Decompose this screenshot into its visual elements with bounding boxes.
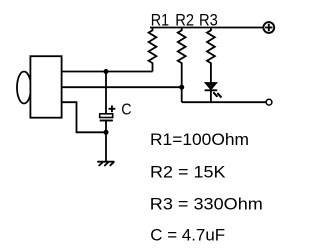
node A junction dot (cap top / wire1) [104, 69, 109, 74]
svg-text:C: C [121, 101, 131, 118]
wire mic pin1 to R1 bottom [62, 71, 153, 73]
wire mic pin2 to R2 bottom node [62, 86, 182, 88]
capacitor C plus marking [109, 105, 116, 112]
terminal plus supply [263, 22, 274, 33]
resistor R3 [207, 28, 215, 83]
wire R2 bottom to output rail [181, 87, 183, 102]
resistor R2 [178, 28, 186, 88]
svg-text:R3 = 330Ohm: R3 = 330Ohm [150, 195, 263, 214]
wire LED cathode lead [210, 90, 212, 102]
wire top supply rail [150, 27, 263, 29]
microphone MIC capsule ellipse [17, 72, 31, 104]
wire cap top lead [105, 72, 107, 114]
svg-text:R1=100Ohm: R1=100Ohm [150, 130, 249, 149]
svg-text:R1: R1 [151, 11, 169, 30]
terminal output [266, 99, 272, 105]
resistor R1 [149, 28, 157, 72]
capacitor C1 top plate [100, 114, 113, 118]
microphone MIC body [30, 56, 61, 117]
node B junction dot (ground node) [104, 130, 109, 135]
node C junction dot (R2 / wire2) [179, 85, 184, 90]
wire mic pin3 to ground node [62, 102, 106, 132]
svg-text:R3: R3 [199, 11, 218, 30]
LED D1 cathode bar [205, 89, 218, 91]
LED D1 anode triangle [205, 83, 217, 90]
LED D1 emission arrows [214, 93, 221, 97]
svg-text:R2: R2 [175, 11, 194, 30]
ground symbol [98, 162, 114, 166]
wire bottom output rail [182, 101, 267, 103]
wire cap bottom lead [105, 121, 107, 162]
svg-text:R2 = 15K: R2 = 15K [150, 163, 226, 182]
capacitor C1 bottom plate [100, 120, 113, 122]
svg-text:C = 4.7uF: C = 4.7uF [150, 226, 225, 245]
